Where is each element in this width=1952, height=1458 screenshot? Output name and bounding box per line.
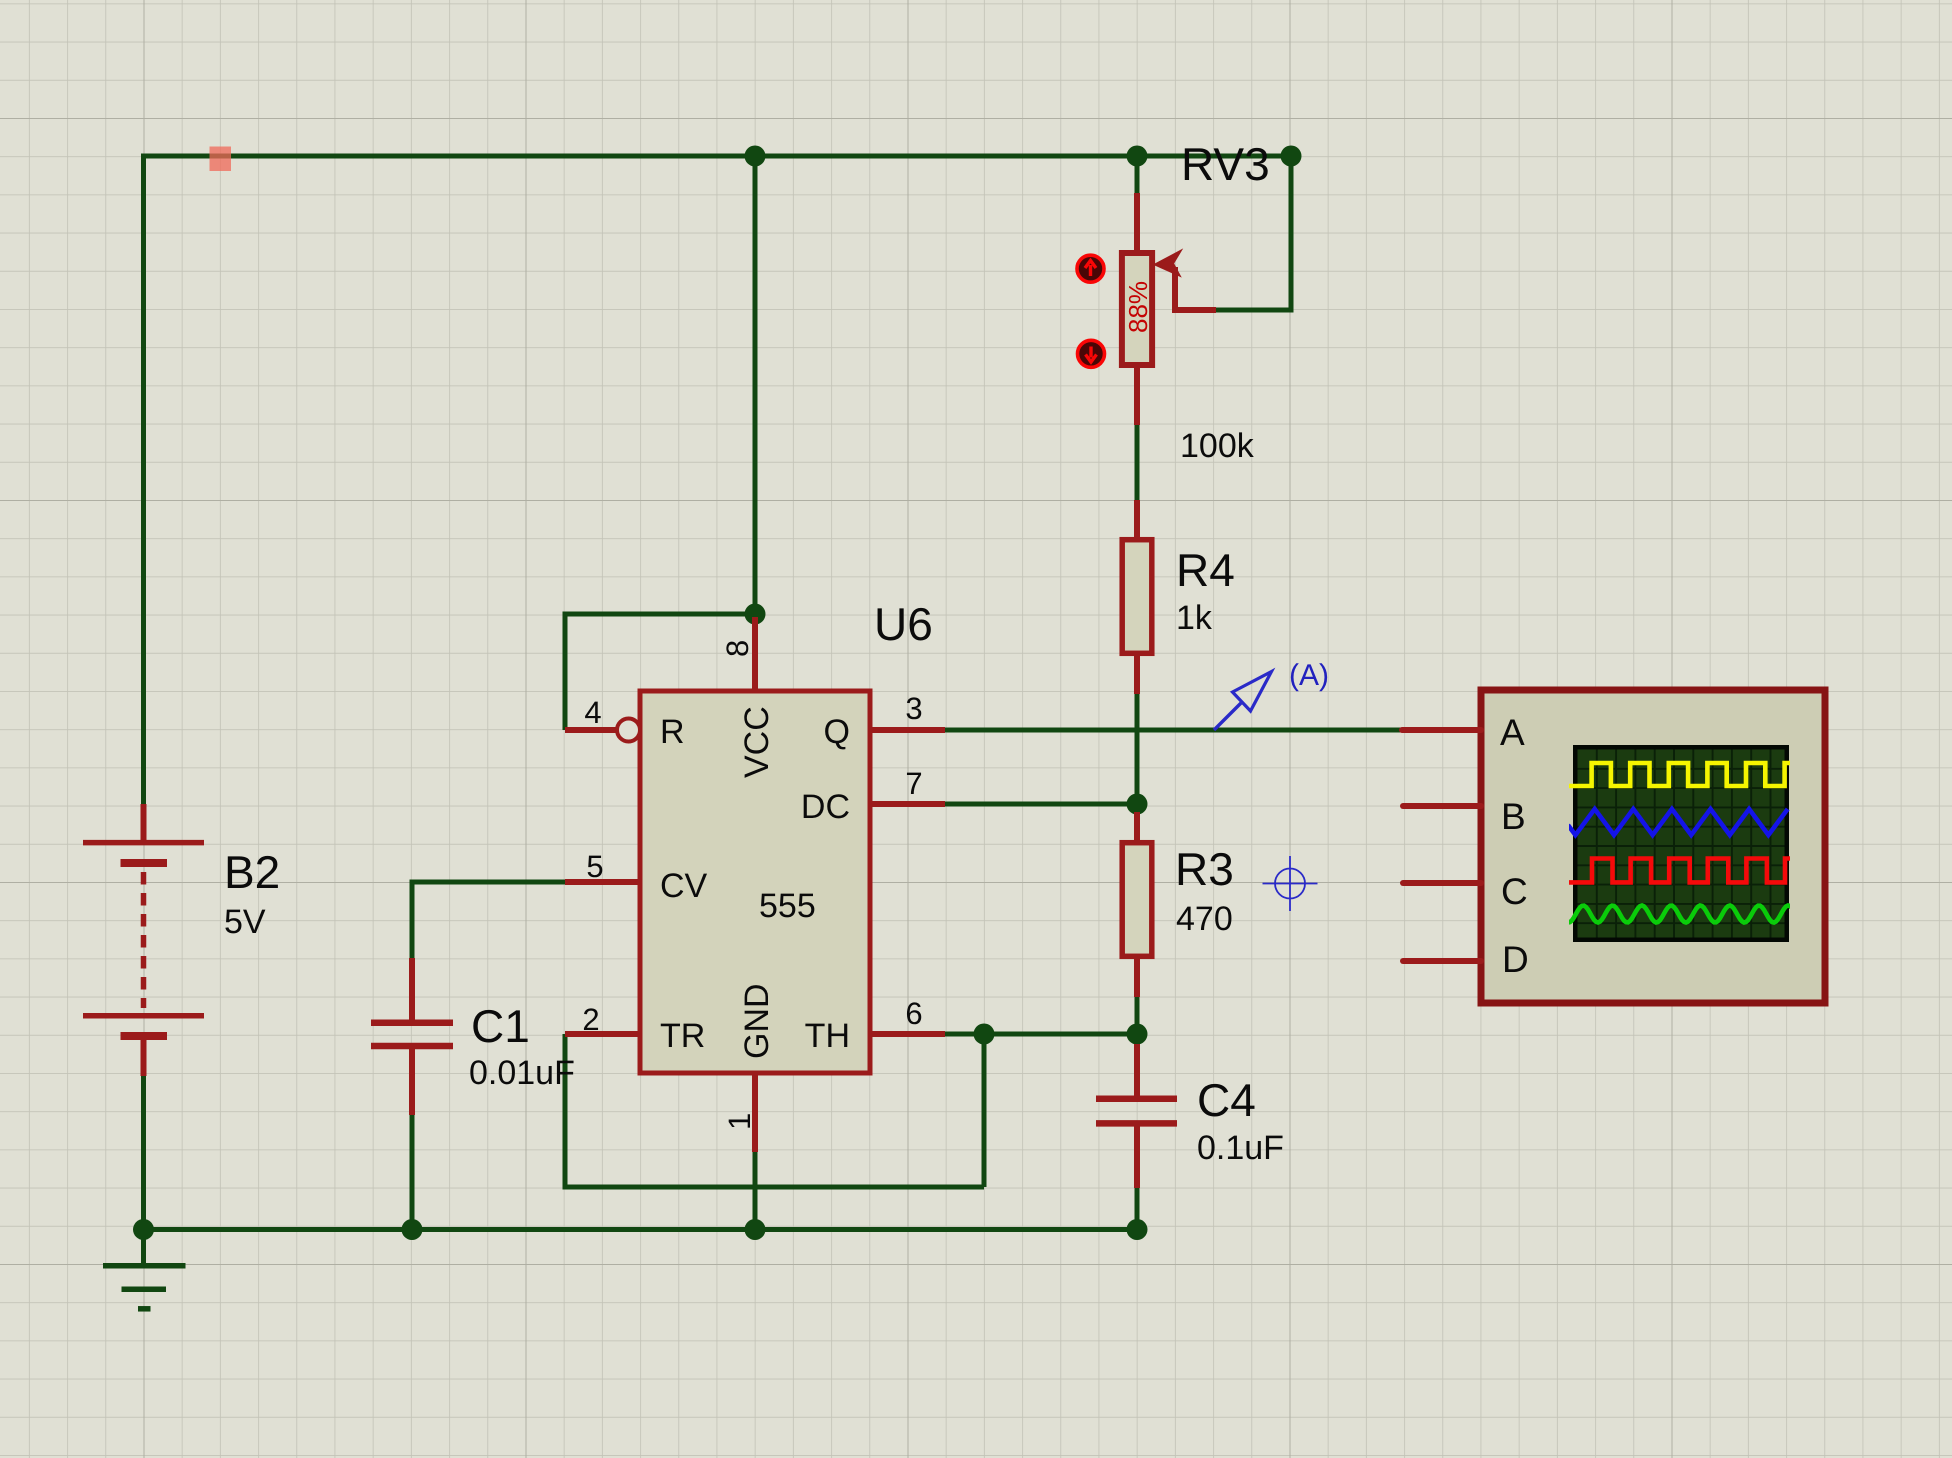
oscilloscope screen frame [1573,745,1789,942]
battery B2 cell 2 long plate [83,1013,204,1019]
battery B2 dashed middle link [141,872,147,1008]
value 470 [1176,900,1233,938]
svg-text:100k: 100k [1180,427,1255,465]
U6 pin name R [660,713,685,751]
wire: C4 bottom to ground rail [1135,1187,1140,1230]
junction: TH / TR link node [974,1024,995,1045]
junction: TH / R3 / C4 node [1127,1024,1148,1045]
capacitor C1 top lead [409,958,415,1020]
voltage probe (A) arrow [1214,672,1272,731]
svg-text:5: 5 [586,849,603,884]
junction: DC / R4 / R3 node [1127,794,1148,815]
svg-text:3: 3 [905,691,922,726]
op-amp/timer U6 555 body [640,691,870,1073]
battery B2 cell 1 long plate [83,840,204,846]
wire: battery negative to ground rail [141,1076,146,1230]
potentiometer RV3 wiper arrow [1155,251,1216,310]
label C4 [1197,1074,1256,1126]
ground symbol [103,1266,186,1309]
U6 pin name TH [805,1017,850,1055]
U6 part number 555 [759,887,816,925]
battery B2 negative lead [141,1036,147,1076]
U6 pin number 3 [905,691,922,726]
U6 pin number 6 [905,996,922,1031]
resistor R3 top lead [1134,812,1140,842]
oscilloscope label C [1501,871,1528,912]
svg-text:C: C [1501,871,1528,912]
svg-text:(A): (A) [1289,659,1329,692]
waveform channel C (red square) [1568,859,1793,883]
value 5V [224,903,266,941]
svg-text:2: 2 [582,1002,599,1037]
U6 pin name DC [801,788,850,826]
wire: C1 bottom to ground rail [410,1114,415,1230]
wire: TR-TH link vertical at node [982,1034,987,1187]
potentiometer RV3 down button [1078,340,1105,367]
svg-text:470: 470 [1176,900,1233,938]
U6 pin number 5 [586,849,603,884]
resistor R3 bottom lead [1134,956,1140,997]
wire: VCC drop from top rail to pin 8 [753,156,758,616]
resistor R4 body [1122,540,1152,654]
junction: VCC node at pin 8 [745,604,766,625]
resistor R4 top lead [1134,500,1140,537]
svg-text:0.1uF: 0.1uF [1197,1129,1284,1167]
U6 pin 7 stub (DC) [870,801,945,807]
svg-text:555: 555 [759,887,816,925]
U6 pin name VCC (rotated) [738,706,776,778]
wire: RV3 bottom to R4 top [1135,424,1140,501]
junction: ground rail / C4 [1127,1219,1148,1240]
junction: rail / RV3 wiper return [1281,146,1302,167]
oscilloscope label A [1500,712,1525,753]
wire: stub to ground symbol [141,1230,146,1265]
svg-text:R4: R4 [1176,544,1235,596]
battery B2 cell 2 short plate [121,1032,168,1040]
wire: reset loop from pin 4 up to VCC node [565,614,755,730]
probe label (A) [1289,659,1329,692]
wire: top power rail [144,154,1292,159]
wire: pin 1 to ground rail [753,1152,758,1230]
svg-text:7: 7 [905,766,922,801]
oscilloscope pin C stub [1403,880,1481,886]
svg-text:DC: DC [801,788,850,826]
U6 pin number 4 [584,695,601,730]
wire: Q output to oscilloscope channel A [945,728,1402,733]
svg-text:B: B [1501,796,1526,837]
svg-text:CV: CV [660,867,708,905]
U6 pin 6 stub (TH) [870,1031,945,1037]
waveform channel D (green sine) [1568,906,1792,923]
oscilloscope pin A stub [1402,727,1481,733]
U6 pin 2 stub (TR) [565,1031,640,1037]
potentiometer RV3 body [1122,253,1152,365]
U6 pin number 8 (rotated) [720,640,755,657]
potentiometer RV3 top lead [1134,193,1140,251]
oscilloscope body [1481,690,1825,1003]
U6 pin number 2 [582,1002,599,1037]
svg-text:1k: 1k [1176,599,1213,637]
svg-text:5V: 5V [224,903,266,941]
svg-text:R: R [660,713,685,751]
svg-text:RV3: RV3 [1181,138,1270,190]
junction: ground rail / pin 1 [745,1219,766,1240]
U6 pin 1 stub (GND) [752,1073,758,1152]
oscilloscope label D [1502,939,1529,980]
svg-text:1: 1 [722,1113,757,1130]
svg-text:TH: TH [805,1017,850,1055]
junction: ground rail / C1 [402,1219,423,1240]
wire: DC pin 7 to RV3/R4 node [945,802,1137,807]
label C1 [471,1000,530,1052]
capacitor C4 plates [1096,1099,1177,1124]
wire: TR loop from pin 2 [565,1034,984,1187]
svg-text:C4: C4 [1197,1074,1256,1126]
oscilloscope pin D stub [1403,958,1481,964]
U6 pin 4 stub (R) with bubble [565,719,640,742]
value 0.01uF [469,1054,575,1092]
svg-text:VCC: VCC [738,706,776,778]
U6 pin number 1 (rotated) [722,1113,757,1130]
wire: ground rail [144,1227,1138,1232]
capacitor C4 top lead [1134,1044,1140,1096]
potentiometer RV3 up button [1077,255,1104,282]
resistor R4 bottom lead [1134,656,1140,694]
U6 pin name GND (rotated) [738,983,776,1059]
svg-text:R3: R3 [1175,843,1234,895]
capacitor C4 bottom lead [1134,1126,1140,1188]
battery B2 positive lead [141,804,147,842]
wire: RV3 top terminal to rail [1135,156,1140,194]
svg-text:6: 6 [905,996,922,1031]
svg-text:Q: Q [824,713,850,751]
potentiometer RV3 value 88% [1123,281,1153,333]
wire: R4 bottom to DC node [1135,693,1140,804]
svg-text:GND: GND [738,983,776,1059]
capacitor C1 bottom lead [409,1049,415,1115]
label B2 [224,846,280,898]
wire: R3 bottom to TH node [1135,996,1140,1034]
oscilloscope pin B stub [1403,803,1481,809]
oscilloscope screen graticule [1578,750,1785,938]
U6 pin name Q [824,713,850,751]
wire: RV3 wiper return to rail [1216,156,1291,310]
U6 pin name TR [660,1017,705,1055]
svg-text:0.01uF: 0.01uF [469,1054,575,1092]
svg-text:U6: U6 [874,598,933,650]
waveform channel A (yellow square) [1568,763,1793,786]
selection origin marker [210,147,232,172]
label R3 [1175,843,1234,895]
capacitor C1 plates [371,1023,453,1046]
svg-text:4: 4 [584,695,601,730]
junction: rail / RV3 top [1127,146,1148,167]
U6 pin 3 stub (Q) [870,727,945,733]
label U6 [874,598,933,650]
wire: TH pin 6 to R3/C4 node [945,1032,1137,1037]
svg-text:C1: C1 [471,1000,530,1052]
label RV3 [1181,138,1270,190]
resistor R3 body [1122,843,1152,957]
svg-text:A: A [1500,712,1525,753]
U6 pin number 7 [905,766,922,801]
U6 pin 5 stub (CV) [565,879,640,885]
waveform channel B (blue triangle) [1568,809,1788,835]
label R4 [1176,544,1235,596]
value 100k [1180,427,1255,465]
svg-text:8: 8 [720,640,755,657]
crosshair marker [1263,856,1318,911]
wire: CV pin 5 to C1 [412,882,565,959]
U6 pin 8 stub (VCC) [752,617,758,691]
svg-text:TR: TR [660,1017,705,1055]
U6 pin name CV [660,867,708,905]
svg-text:B2: B2 [224,846,280,898]
svg-text:88%: 88% [1123,281,1153,333]
potentiometer RV3 bottom lead [1134,368,1140,425]
battery B2 cell 1 short plate [121,859,168,867]
wire: left rail from top corner to battery [141,154,146,806]
value 1k [1176,599,1213,637]
value 0.1uF [1197,1129,1284,1167]
svg-text:D: D [1502,939,1529,980]
junction: rail / VCC drop [745,146,766,167]
junction: ground rail / battery [133,1219,154,1240]
oscilloscope label B [1501,796,1526,837]
